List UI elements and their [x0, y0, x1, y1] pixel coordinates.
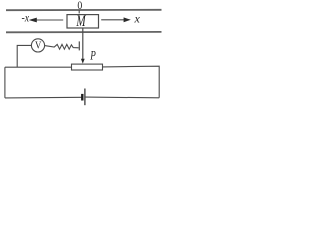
svg-text:P: P: [89, 49, 95, 63]
wire left horizontal: [5, 66, 72, 68]
voltmeter V: [31, 39, 44, 52]
mass M box: [67, 15, 99, 28]
arrow -x: [29, 18, 64, 23]
potentiometer P box: [72, 64, 103, 70]
resistor R: [45, 44, 79, 49]
svg-text:x: x: [134, 12, 141, 26]
battery negative plate: [81, 94, 83, 101]
contact bar: [78, 41, 80, 50]
wire P right to corner: [103, 66, 160, 98]
rail bottom: [6, 31, 162, 33]
battery positive plate: [84, 89, 86, 106]
origin tick: [78, 10, 80, 13]
svg-text:V: V: [35, 41, 42, 52]
rail top: [6, 9, 162, 11]
svg-text:-x: -x: [22, 12, 30, 25]
wire voltmeter left lead: [17, 45, 31, 67]
wire left vertical: [4, 67, 6, 98]
wire M to wiper: [81, 28, 85, 64]
svg-text:M: M: [76, 12, 87, 29]
wire bottom right: [86, 96, 160, 99]
arrow x: [101, 17, 131, 22]
svg-text:0: 0: [77, 0, 82, 12]
wire bottom left: [5, 96, 82, 99]
